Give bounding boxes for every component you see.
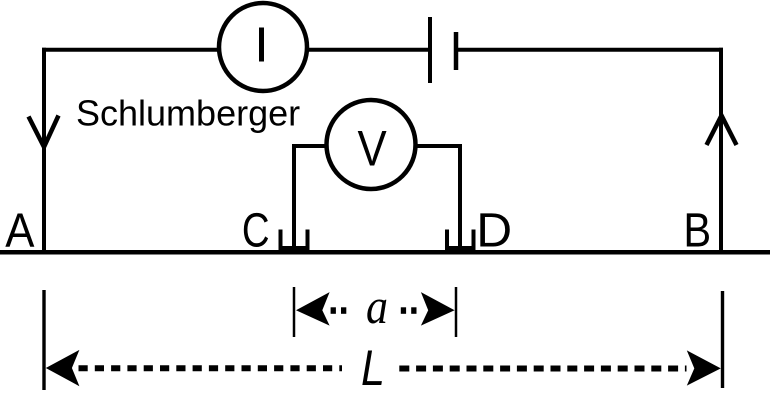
dimension L: right dashed line bbox=[399, 366, 686, 372]
svg-text:D: D bbox=[476, 205, 512, 258]
svg-text:C: C bbox=[242, 205, 270, 258]
wire right vertical (down to B electrode) bbox=[719, 48, 723, 252]
ground surface line bbox=[0, 250, 770, 255]
dimension L: right arrowhead bbox=[687, 350, 721, 385]
current direction arrow (up) on right wire bbox=[707, 116, 737, 146]
svg-text:B: B bbox=[683, 205, 711, 258]
current direction arrow (down) on left wire bbox=[29, 116, 59, 148]
dimension a: right tick bbox=[455, 287, 458, 337]
svg-text:Schlumberger: Schlumberger bbox=[76, 93, 300, 134]
battery short plate bbox=[454, 32, 459, 70]
electrode D symbol bbox=[447, 230, 474, 249]
dimension L: left dashed line bbox=[79, 365, 343, 371]
ammeter U1 circle bbox=[219, 3, 307, 91]
dimension L: left arrowhead bbox=[46, 350, 80, 386]
wire left vertical (down to A electrode) bbox=[42, 48, 46, 252]
wire top-left horizontal (A wire to ammeter) bbox=[42, 48, 219, 52]
wire battery to top-right corner bbox=[456, 48, 723, 52]
svg-text:a: a bbox=[366, 278, 388, 334]
dimension a: left dashes bbox=[331, 307, 336, 314]
dimension L: left tick bbox=[42, 290, 45, 390]
wire ammeter to battery bbox=[307, 48, 428, 52]
dimension a: left tick bbox=[293, 287, 296, 337]
wire voltmeter left branch to C bbox=[294, 146, 328, 250]
dimension a: left arrowhead bbox=[296, 292, 330, 326]
battery long plate bbox=[428, 17, 432, 83]
svg-text:A: A bbox=[5, 205, 34, 258]
ammeter label I bbox=[259, 28, 264, 62]
dimension a: right arrowhead bbox=[421, 292, 455, 326]
voltmeter U2 circle bbox=[327, 100, 416, 189]
wire voltmeter right branch to D bbox=[414, 146, 460, 250]
svg-text:V: V bbox=[358, 121, 388, 177]
dimension a: right dashes bbox=[401, 307, 406, 314]
svg-text:L: L bbox=[361, 340, 385, 396]
electrode C symbol bbox=[281, 230, 308, 249]
dimension L: right tick bbox=[721, 291, 724, 388]
